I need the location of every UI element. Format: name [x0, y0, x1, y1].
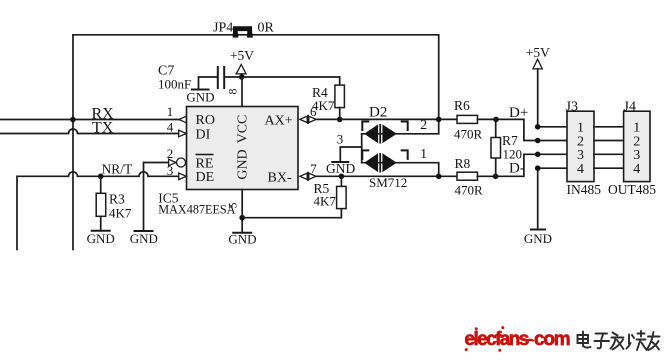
svg-text:MAX487EESA: MAX487EESA: [158, 203, 235, 217]
wire top jumper net: [73, 34, 439, 36]
svg-text:TX: TX: [92, 119, 114, 136]
label RO: [196, 113, 215, 128]
label J4: [624, 100, 636, 115]
svg-text:2: 2: [633, 134, 640, 149]
label R3 value: [109, 192, 132, 221]
svg-text:3: 3: [633, 148, 640, 163]
wire TX: [0, 129, 179, 134]
pin number 6: [310, 104, 317, 119]
pin number 1: [167, 104, 174, 119]
diode array D2: [362, 119, 439, 176]
svg-text:3: 3: [167, 163, 174, 178]
label GND rotated: [236, 149, 251, 179]
jumper JP4: [233, 29, 253, 38]
pin number 4: [167, 120, 174, 135]
svg-text:3: 3: [577, 148, 584, 163]
power +5V (J3): [526, 45, 550, 127]
wire BX- row: [316, 175, 457, 177]
wire J3 pin1: [535, 124, 567, 130]
node D+ junction: [493, 117, 499, 123]
svg-text:7: 7: [310, 161, 317, 176]
pin 7 BX- bowtie: [300, 172, 316, 181]
svg-text:1: 1: [633, 121, 640, 136]
svg-text:com: com: [534, 329, 570, 350]
node NR/T junction: [98, 174, 104, 180]
node R5 junction: [339, 174, 345, 180]
pin 6 AX+ bowtie: [300, 115, 316, 124]
pin 4 DI arrow: [179, 130, 187, 137]
resistor R4: [335, 85, 345, 119]
svg-text:IN485: IN485: [567, 182, 602, 197]
svg-text:GND: GND: [524, 231, 552, 246]
power +5V (IC): [230, 48, 254, 77]
label SM712: [369, 175, 407, 190]
wire IC GND pin: [241, 190, 243, 233]
label DE: [196, 170, 215, 185]
label 3 D2 pin: [337, 132, 344, 147]
svg-text:D2: D2: [369, 105, 387, 121]
svg-text:NR/T: NR/T: [102, 162, 134, 177]
svg-text:GND: GND: [236, 149, 251, 179]
svg-text:JP4: JP4: [213, 21, 233, 36]
label TX: [92, 119, 114, 136]
svg-text:4: 4: [167, 120, 174, 135]
svg-text:GND: GND: [130, 231, 158, 246]
svg-text:SM712: SM712: [369, 175, 407, 190]
svg-text:4K7: 4K7: [109, 206, 132, 221]
wire J3 pin2 node: [535, 138, 541, 144]
logo elecfans.com: [465, 326, 570, 352]
svg-text:DI: DI: [196, 128, 211, 143]
wire VCC pin: [241, 77, 243, 107]
svg-text:RO: RO: [196, 113, 215, 128]
svg-text:2: 2: [167, 146, 174, 161]
svg-text:R3: R3: [109, 192, 125, 207]
svg-text:GND: GND: [87, 231, 115, 246]
node D- junction: [493, 174, 499, 180]
svg-text:J4: J4: [624, 100, 636, 115]
connector J4: [624, 111, 650, 181]
svg-text:1: 1: [577, 121, 584, 136]
label MAX487EESA: [158, 203, 235, 217]
node RX junction: [70, 117, 76, 123]
wire J3-J4 links: [594, 127, 624, 168]
svg-text:+5V: +5V: [526, 45, 550, 60]
label D2: [369, 105, 387, 121]
capacitor C7: [199, 66, 242, 89]
label DI: [196, 128, 211, 143]
label 2 D2 pin: [420, 118, 427, 133]
svg-text:3: 3: [337, 132, 344, 147]
svg-text:OUT485: OUT485: [608, 182, 656, 197]
ground J3: [524, 230, 552, 247]
logo Chinese characters: [578, 331, 660, 350]
resistor R7: [491, 119, 501, 176]
node IC GND junction: [239, 215, 245, 221]
svg-text:120: 120: [503, 147, 523, 162]
label R4 value: [312, 85, 335, 113]
wire +5V to R4: [242, 77, 340, 85]
label RE with overline: [196, 155, 214, 172]
label JP4: [213, 21, 233, 36]
wire JP4 drop: [438, 35, 440, 120]
wire NR/T: [17, 172, 178, 250]
label J4 pin numbers: [633, 121, 640, 177]
pin 2 RE bubble: [169, 158, 186, 167]
pin number 3: [167, 163, 174, 178]
wire AX+ row: [316, 118, 457, 120]
svg-text:4: 4: [633, 162, 640, 177]
label R8 value: [455, 156, 484, 197]
svg-text:6: 6: [310, 104, 317, 119]
wire J3 pin3 node: [535, 152, 541, 158]
label AX+: [265, 114, 293, 129]
resistor R8: [457, 172, 478, 180]
label J3 pin numbers: [577, 121, 584, 177]
pin number 5 rotated: [226, 203, 240, 209]
svg-text:4: 4: [577, 162, 584, 177]
svg-text:4K7: 4K7: [314, 194, 337, 209]
connector J3: [567, 111, 594, 181]
op-amp IC5 body: [187, 107, 299, 190]
node D2 pin2 junction: [436, 117, 442, 123]
svg-text:DE: DE: [196, 170, 215, 185]
resistor R3: [96, 176, 106, 231]
svg-text:2: 2: [577, 134, 584, 149]
wire RE to ground: [144, 163, 169, 232]
node R4/AX+ junction: [337, 117, 343, 123]
svg-text:5: 5: [226, 203, 240, 209]
resistor R5: [337, 176, 347, 208]
pin 3 DE arrow: [179, 173, 187, 180]
svg-text:D+: D+: [509, 105, 528, 121]
label 0R: [258, 21, 275, 36]
svg-text:GND: GND: [228, 232, 256, 247]
wire R8 to D-: [478, 154, 568, 176]
ground RE: [130, 231, 158, 246]
pin number 7: [310, 161, 317, 176]
svg-text:+5V: +5V: [230, 48, 254, 63]
label D-: [509, 161, 525, 177]
wire R6 to D+: [478, 119, 568, 140]
ground R3: [87, 231, 115, 246]
wire GND net to R5: [242, 209, 341, 218]
wire J3 pin4: [535, 165, 567, 229]
svg-text:R6: R6: [454, 98, 470, 113]
wire left vertical bus: [72, 35, 74, 250]
label R7 value: [502, 133, 522, 162]
svg-text:0R: 0R: [258, 21, 275, 36]
label NR/T: [102, 162, 134, 177]
pin 1 RO arrow: [179, 116, 186, 123]
label C7: [158, 64, 191, 92]
label OUT485: [608, 182, 656, 197]
svg-text:470R: 470R: [454, 126, 483, 141]
ground D2 pin3: [326, 161, 355, 176]
svg-text:GND: GND: [186, 90, 214, 105]
label RX: [92, 105, 115, 122]
svg-text:1: 1: [420, 147, 427, 162]
svg-text:J3: J3: [566, 100, 578, 115]
label R6 value: [454, 98, 483, 141]
svg-text:elecfans: elecfans: [465, 329, 529, 350]
label R5 value: [314, 181, 337, 209]
svg-text:2: 2: [420, 118, 427, 133]
svg-text:1: 1: [167, 104, 174, 119]
label VCC rotated: [236, 115, 251, 144]
ground IC5: [228, 232, 256, 247]
wire D2 pin3 to ground: [340, 147, 361, 162]
svg-text:R8: R8: [455, 156, 471, 171]
label J3: [566, 100, 578, 115]
node +5V junction: [239, 74, 245, 80]
ground C7: [186, 90, 214, 105]
label IN485: [567, 182, 602, 197]
svg-text:VCC: VCC: [236, 115, 251, 144]
wire RX: [0, 119, 179, 121]
svg-text:8: 8: [226, 89, 240, 95]
label IC5: [158, 191, 179, 206]
svg-text:GND: GND: [326, 161, 355, 176]
svg-text:470R: 470R: [455, 182, 484, 197]
node D2 pin1 junction: [436, 174, 442, 180]
svg-text:AX+: AX+: [265, 114, 293, 129]
resistor R6: [457, 115, 478, 123]
svg-text:D-: D-: [509, 161, 525, 177]
pin number 8 rotated: [226, 89, 240, 95]
svg-text:BX-: BX-: [268, 171, 292, 186]
label BX-: [268, 171, 292, 186]
label 1 D2 pin: [420, 147, 427, 162]
pin number 2: [167, 146, 174, 161]
label D+: [509, 105, 528, 121]
